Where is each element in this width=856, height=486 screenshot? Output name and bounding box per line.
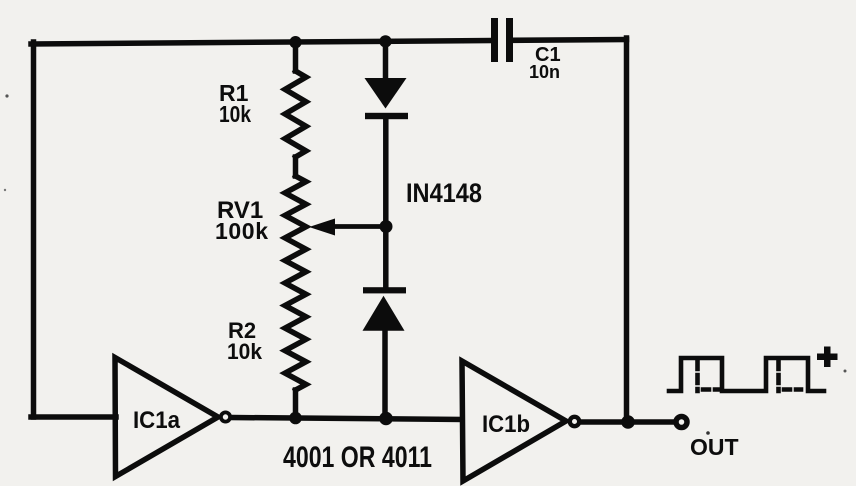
wire R1 top lead	[293, 42, 299, 71]
wire RV1 wiper horizontal	[333, 224, 386, 229]
potentiometer RV1 and resistor R2 zigzag	[285, 176, 306, 390]
node top R1	[289, 36, 301, 48]
svg-text:IC1a: IC1a	[133, 407, 181, 434]
wire left vertical	[31, 42, 37, 417]
wire below D2 to bottom node	[382, 330, 388, 418]
wire between R1 and RV1	[293, 157, 299, 176]
node top diode	[379, 35, 391, 47]
RV1 wiper arrowhead	[309, 219, 335, 236]
wire R2 bottom lead	[293, 390, 299, 418]
IC1b output bubble	[570, 417, 579, 426]
node bottom R2	[289, 412, 302, 425]
capacitor C1 plates	[491, 18, 513, 62]
wire bottom left horizontal	[31, 414, 116, 420]
wire diode column top lead	[383, 41, 389, 80]
node bottom diode	[379, 412, 393, 426]
svg-text:10n: 10n	[529, 62, 560, 82]
svg-text:10k: 10k	[219, 101, 251, 127]
plus sign	[817, 347, 838, 368]
wire IC1a output to IC1b input	[233, 418, 463, 420]
IC1a output bubble	[221, 412, 230, 421]
scan speckles	[5, 94, 8, 97]
wire right vertical	[624, 38, 630, 422]
svg-text:OUT: OUT	[690, 434, 739, 460]
wire between diodes	[383, 117, 389, 290]
inverter IC1a	[115, 358, 218, 477]
inverter IC1b	[462, 361, 566, 481]
waveform symbol	[669, 358, 824, 391]
svg-text:4001 OR 4011: 4001 OR 4011	[283, 441, 432, 474]
OUT terminal circle	[676, 417, 687, 428]
svg-text:IC1b: IC1b	[482, 411, 530, 438]
diode D2 IN4148 (pointing up)	[363, 287, 407, 331]
diode D1 IN4148 (pointing down)	[365, 78, 409, 119]
wire top right horizontal	[512, 37, 627, 43]
svg-text:IN4148: IN4148	[406, 178, 482, 208]
svg-text:10k: 10k	[227, 339, 263, 364]
svg-text:100k: 100k	[215, 218, 268, 244]
resistor R1	[285, 71, 306, 157]
node wiper junction	[380, 220, 393, 233]
node output junction	[621, 415, 635, 429]
wire top left horizontal	[31, 41, 491, 45]
wire IC1b output to OUT	[582, 419, 674, 425]
